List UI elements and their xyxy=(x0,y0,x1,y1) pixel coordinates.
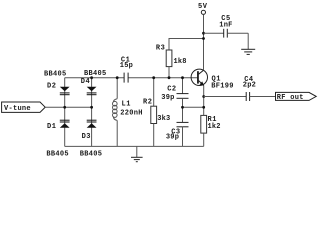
wire top bus right (base node) xyxy=(128,77,197,79)
net flag RF out xyxy=(276,92,317,102)
svg-text:R3: R3 xyxy=(156,44,165,52)
junction node emitter/R1/C-divider xyxy=(202,106,205,109)
resistor R1 1k2 xyxy=(201,115,207,146)
svg-text:2p2: 2p2 xyxy=(243,82,256,90)
svg-text:BB405: BB405 xyxy=(46,151,68,159)
wire C5 to ground xyxy=(247,33,249,49)
wire V-tune to varactor columns xyxy=(45,106,91,108)
junction node C2 top on bus xyxy=(181,76,184,79)
svg-text:RF out: RF out xyxy=(277,94,304,102)
wire D2/D1 column xyxy=(64,78,66,147)
wire bottom bus (ground rail) xyxy=(65,145,204,147)
capacitor C2 39p xyxy=(177,78,189,123)
svg-text:D1: D1 xyxy=(47,123,56,131)
svg-text:L1: L1 xyxy=(122,101,131,109)
wire 5V rail to collector xyxy=(203,15,205,71)
svg-text:220nH: 220nH xyxy=(120,110,142,118)
wire top bus left (tank) xyxy=(65,77,124,79)
varactor D1 xyxy=(60,120,70,128)
svg-text:BB405: BB405 xyxy=(44,70,66,78)
svg-text:1k8: 1k8 xyxy=(174,58,187,66)
svg-text:1k2: 1k2 xyxy=(208,123,221,131)
svg-text:5V: 5V xyxy=(198,3,208,11)
varactor D3 xyxy=(87,120,97,128)
varactor D4 xyxy=(87,87,97,95)
transistor Q1 BF199 xyxy=(191,69,207,86)
capacitor C1 15p xyxy=(124,73,128,83)
resistor R2 3k3 xyxy=(151,78,157,147)
capacitor C4 2p2 xyxy=(246,92,249,101)
svg-text:D3: D3 xyxy=(82,133,91,141)
ground (C5) xyxy=(241,49,255,54)
svg-text:39p: 39p xyxy=(166,134,179,142)
wire C4 to RF out flag xyxy=(250,96,276,98)
5V supply terminal xyxy=(201,10,205,14)
svg-text:C2: C2 xyxy=(167,86,176,94)
junction node V-tune/D2/D1 xyxy=(63,106,66,109)
svg-text:BB405: BB405 xyxy=(84,70,106,78)
junction node D4/D3 xyxy=(90,106,93,109)
svg-text:D2: D2 xyxy=(47,83,56,91)
wire emitter to C2/C3 node xyxy=(183,106,204,108)
svg-text:BB405: BB405 xyxy=(80,151,102,159)
svg-text:BF199: BF199 xyxy=(211,82,233,90)
junction node D4 top on bus xyxy=(90,76,93,79)
svg-text:R2: R2 xyxy=(143,98,152,106)
junction node L1 top on bus xyxy=(116,76,119,79)
junction node C5 branch xyxy=(202,32,205,35)
net flag V-tune xyxy=(2,102,46,113)
svg-text:15p: 15p xyxy=(120,62,133,70)
capacitor C5 1nF xyxy=(204,29,249,38)
wire output to C4 xyxy=(204,96,246,98)
resistor R3 1k8 xyxy=(166,39,203,78)
svg-text:3k3: 3k3 xyxy=(157,115,170,123)
wire emitter column xyxy=(203,85,205,115)
wire D4/D3 column xyxy=(91,78,93,147)
junction node R2 top on bus xyxy=(152,76,155,79)
junction node R3 bottom on bus xyxy=(168,76,171,79)
inductor L1 220nH xyxy=(113,78,118,147)
svg-text:39p: 39p xyxy=(161,94,174,102)
junction node C2/C3 xyxy=(181,106,184,109)
junction node R3 branch xyxy=(202,37,205,40)
junction node RF output tap xyxy=(202,95,205,98)
varactor D2 xyxy=(60,87,70,95)
wire ground stem (main) xyxy=(136,146,138,157)
capacitor C3 39p xyxy=(177,122,189,146)
svg-text:1nF: 1nF xyxy=(219,22,232,30)
ground (main) xyxy=(131,157,143,161)
svg-text:D4: D4 xyxy=(81,78,90,86)
svg-text:V-tune: V-tune xyxy=(4,105,31,113)
